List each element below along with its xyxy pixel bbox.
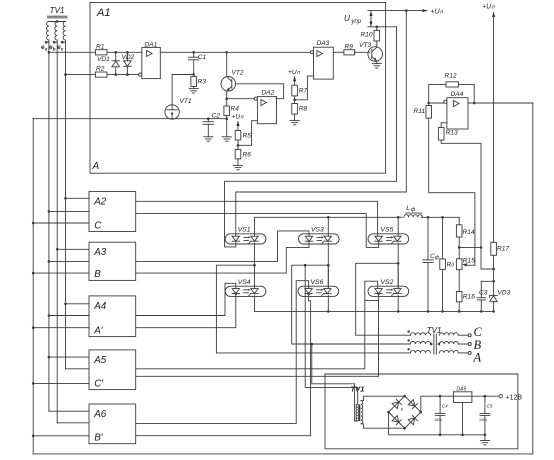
svg-text:DA3: DA3 xyxy=(317,40,330,47)
capacitor C4 xyxy=(439,396,441,413)
resistor R17 xyxy=(491,242,497,255)
wire VT1 source row xyxy=(33,118,227,120)
wire A2 in3 xyxy=(33,222,89,224)
resistor R15 (trimmer) xyxy=(456,259,462,270)
wire VS4 led cathode xyxy=(235,292,238,295)
wire A6 in3 xyxy=(33,435,89,437)
svg-text:+U: +U xyxy=(232,114,241,121)
svg-text:C4: C4 xyxy=(442,404,448,409)
svg-text:д: д xyxy=(451,263,454,269)
wire output C xyxy=(458,334,468,336)
wire PSU secondary bottom xyxy=(361,424,405,428)
wire R15 to R16 xyxy=(458,270,460,292)
svg-text:Б: Б xyxy=(401,408,404,412)
svg-text:VD1: VD1 xyxy=(97,56,110,63)
resistor R4 xyxy=(226,99,228,106)
svg-text:VT3: VT3 xyxy=(359,42,371,49)
terminal ea xyxy=(45,41,48,44)
wire R1 to DA1 xyxy=(107,51,142,53)
wire Un drop to VS1 anode xyxy=(405,11,407,192)
ground R3 xyxy=(193,87,195,89)
op-amp DA4 xyxy=(447,98,468,129)
svg-text:A′: A′ xyxy=(93,325,104,336)
svg-text:ф: ф xyxy=(411,207,416,213)
capacitor Cf xyxy=(427,217,429,260)
bridge diode VD-TR xyxy=(408,400,415,407)
svg-text:R14: R14 xyxy=(463,229,475,236)
wire VS5 loop feed xyxy=(136,213,379,247)
resistor R11 xyxy=(426,106,432,119)
terminal +12V xyxy=(499,395,502,398)
rail ec phase xyxy=(65,42,67,369)
ground R6 xyxy=(237,159,239,166)
svg-text:R1: R1 xyxy=(96,43,105,50)
wire anode bus xyxy=(255,216,403,218)
wire A3 in2 xyxy=(49,260,89,262)
wire VS3 thyristor anode xyxy=(327,217,329,236)
wire VS1 loop feed xyxy=(225,181,397,247)
wire A4 in1 xyxy=(66,303,90,305)
svg-text:100n: 100n xyxy=(434,418,442,422)
svg-text:п: п xyxy=(440,9,443,15)
svg-text:R9: R9 xyxy=(345,43,354,50)
wire VS6 anode feed xyxy=(136,281,309,424)
wire DA1 out bus xyxy=(160,51,310,53)
inductor Lf xyxy=(404,215,422,218)
svg-text:C: C xyxy=(94,220,102,231)
svg-text:DA4: DA4 xyxy=(451,91,464,98)
block A1 boundary box xyxy=(90,3,386,174)
wire Rd bottom xyxy=(442,269,444,311)
svg-text:R2: R2 xyxy=(96,66,105,73)
wire A3 in3 xyxy=(33,272,89,274)
svg-text:b: b xyxy=(53,46,56,51)
capacitor C1 xyxy=(193,52,195,57)
svg-text:A: A xyxy=(92,161,100,172)
svg-text:+U: +U xyxy=(288,69,297,76)
svg-text:A2: A2 xyxy=(93,197,107,208)
transistor VT2 xyxy=(221,77,236,92)
wire R17 bottom xyxy=(493,255,495,295)
wire A4 in3 xyxy=(33,327,89,329)
svg-text:+U: +U xyxy=(431,8,441,15)
PSU enclosure box xyxy=(325,374,518,449)
svg-text:R12: R12 xyxy=(445,73,457,80)
svg-text:R11: R11 xyxy=(414,108,426,115)
wire R9 to VT3 xyxy=(355,51,370,53)
voltage regulator DA5 xyxy=(453,392,472,403)
svg-text:DA5: DA5 xyxy=(457,386,467,392)
node R5/R6 xyxy=(237,140,239,149)
bridge diode VD-BL xyxy=(392,416,399,423)
wire VT2 emitter xyxy=(226,91,228,99)
svg-text:VS5: VS5 xyxy=(381,227,394,234)
svg-text:R8: R8 xyxy=(299,106,308,113)
optothyristor VS6 xyxy=(298,286,339,296)
svg-text:R3: R3 xyxy=(198,79,207,86)
svg-text:+U: +U xyxy=(482,4,492,11)
block A2 xyxy=(89,192,136,232)
wire VS2 loop riser xyxy=(136,300,379,376)
power +Un arrow (top) xyxy=(423,9,427,12)
resistor R5 xyxy=(235,130,241,140)
wire DA4 out xyxy=(468,102,533,104)
svg-text:U: U xyxy=(344,14,350,23)
wire VS1 thyristor anode xyxy=(254,217,256,236)
svg-text:A4: A4 xyxy=(93,301,107,312)
svg-text:п: п xyxy=(241,115,244,121)
svg-text:VS6: VS6 xyxy=(311,279,324,286)
resistor R3 xyxy=(191,77,197,87)
TV1 secondary winding 1 xyxy=(439,333,458,336)
measurement bus bottom xyxy=(255,310,494,312)
TV1 winding b xyxy=(55,22,57,41)
Uynp measure arrow xyxy=(370,12,372,19)
wire DA3 out xyxy=(333,51,344,53)
wire VS2 thyristor cathode xyxy=(397,295,399,311)
wire Lf to R14 xyxy=(421,217,459,225)
rail ramp/common xyxy=(32,119,34,454)
diode VD1 xyxy=(115,52,117,61)
wire A2 in1 xyxy=(66,197,90,199)
resistor R2 xyxy=(95,72,107,77)
block A6 xyxy=(89,404,136,444)
wire PSU primary top xyxy=(305,265,358,404)
wire ec to R2 xyxy=(66,74,96,76)
wire VS2 thyristor anode xyxy=(397,263,399,288)
svg-text:B′: B′ xyxy=(94,433,104,444)
wire A3 in1 xyxy=(57,248,89,250)
wire emitter to DA2 inv xyxy=(227,98,256,100)
TV1 winding c xyxy=(63,22,65,41)
optothyristor VS1 xyxy=(225,234,266,244)
svg-text:VS1: VS1 xyxy=(238,227,251,234)
bridge rectifier frame xyxy=(389,396,421,428)
TV1 secondary winding 3 xyxy=(439,350,458,353)
svg-text:DA1: DA1 xyxy=(145,42,158,49)
wire phase A run xyxy=(216,265,410,353)
diode VD2 xyxy=(126,52,128,61)
block A5 xyxy=(89,350,136,390)
bridge diode VD-TL xyxy=(392,402,399,409)
resistor R7 xyxy=(292,85,298,96)
ground VT3 xyxy=(376,61,378,64)
wire VS5-VS2 phase C node xyxy=(397,243,399,289)
svg-text:R17: R17 xyxy=(497,246,509,253)
wire DA4 inv input xyxy=(429,102,446,104)
ground C2 xyxy=(204,136,213,138)
wire VT2 base from DA2 xyxy=(237,84,284,99)
svg-text:A3: A3 xyxy=(93,247,107,258)
zener VD3 xyxy=(490,294,498,296)
svg-text:упр: упр xyxy=(351,19,362,25)
wire R12 right xyxy=(459,84,475,103)
TV1 top tie wire xyxy=(49,21,66,23)
svg-text:A1: A1 xyxy=(96,7,110,19)
wire VS6 loop feed xyxy=(136,301,311,436)
wire DA4 output drop xyxy=(532,103,534,454)
svg-text:VT1: VT1 xyxy=(180,98,192,105)
svg-text:C3: C3 xyxy=(479,290,488,297)
wire C3 branch xyxy=(481,280,493,282)
svg-text:R15: R15 xyxy=(463,258,475,265)
capacitor C2 xyxy=(207,119,209,122)
wire VS2 anode feed xyxy=(136,281,378,369)
svg-text:R10: R10 xyxy=(361,32,373,39)
ground PSU xyxy=(484,435,486,441)
wire A2 in2 xyxy=(49,210,89,212)
svg-text:VD3: VD3 xyxy=(498,290,511,297)
wire VS3 anode feed xyxy=(136,231,309,262)
ground R4 xyxy=(226,116,228,137)
svg-text:100n: 100n xyxy=(479,418,487,422)
svg-text:C5: C5 xyxy=(487,404,493,409)
svg-text:R16: R16 xyxy=(463,294,475,301)
terminal ec xyxy=(61,41,64,44)
block A3 xyxy=(89,242,136,280)
svg-text:R5: R5 xyxy=(243,133,252,140)
block A4 xyxy=(89,296,136,337)
transistor VT1 xyxy=(165,105,179,119)
wire phase C run xyxy=(356,263,411,335)
wire to DA3 noninv xyxy=(295,76,314,100)
wire Un top rail xyxy=(368,10,427,12)
wire R11 to wiper xyxy=(429,118,475,265)
wire VS3 loop feed xyxy=(136,241,309,273)
wire A4 in2 xyxy=(49,315,89,317)
wire bridge plus rail xyxy=(421,396,499,412)
svg-text:R6: R6 xyxy=(243,152,252,159)
wire VT1 drain xyxy=(171,75,173,106)
resistor R8 xyxy=(292,104,298,115)
wire A6 in1 xyxy=(49,410,89,412)
svg-text:a: a xyxy=(45,46,48,51)
wire A5 in2 xyxy=(66,368,90,370)
resistor R16 xyxy=(456,292,462,302)
svg-text:п: п xyxy=(297,70,300,76)
TV1 primary winding 3 xyxy=(410,350,430,353)
svg-text:A: A xyxy=(473,351,482,365)
wire PSU minus rail xyxy=(389,412,485,435)
wire fb junction xyxy=(459,246,481,248)
capacitor C5 xyxy=(484,396,486,413)
wire phase B run xyxy=(292,265,411,344)
node R7/R8 xyxy=(294,96,296,104)
wire A5 in1 xyxy=(49,356,89,358)
wire VS3-VS6 phase B node xyxy=(327,243,329,289)
wire VS5 thyristor anode xyxy=(397,217,399,236)
op-amp DA1 xyxy=(142,47,161,78)
wire DA5 gnd pin xyxy=(462,403,464,435)
wire ea to R1 xyxy=(49,51,96,53)
wire R16 bottom xyxy=(458,302,460,312)
wire VS2 loop hook xyxy=(365,299,379,301)
svg-text:C1: C1 xyxy=(198,54,207,61)
rail eb phase xyxy=(56,42,58,423)
bridge diode VD-BR xyxy=(408,418,415,425)
TV1 secondary winding 2 xyxy=(439,341,458,344)
resistor R9 xyxy=(344,50,355,55)
TV1 primary winding 1 xyxy=(410,333,430,336)
bottom common rail xyxy=(33,453,533,455)
wire PSU primary bottom xyxy=(312,344,358,421)
wire A6 in2 xyxy=(57,422,89,424)
svg-text:A5: A5 xyxy=(93,355,107,366)
svg-text:C2: C2 xyxy=(212,113,221,120)
optothyristor VS4 xyxy=(225,286,266,296)
wire VS6 thyristor cathode xyxy=(327,295,329,311)
wire Uynp drop to VS1 loop xyxy=(396,27,398,182)
svg-text:R7: R7 xyxy=(299,88,308,95)
resistor R12 xyxy=(446,82,459,87)
wire VS4 thyristor cathode xyxy=(254,295,256,311)
svg-text:C′: C′ xyxy=(94,378,104,389)
wire R13 to fb node xyxy=(441,140,493,269)
wire R12 left xyxy=(429,84,446,105)
svg-text:п: п xyxy=(492,5,495,11)
wire +Un to R17 xyxy=(493,22,495,242)
wire PSU secondary top xyxy=(361,396,405,400)
optothyristor VS3 xyxy=(298,234,339,244)
resistor R13 xyxy=(441,122,447,124)
wire A5 in3 xyxy=(33,382,89,384)
wire VS6 led cathode stub xyxy=(307,292,310,295)
wire VS2 led cathode stub xyxy=(377,292,380,295)
svg-text:L: L xyxy=(406,205,410,212)
svg-text:DA2: DA2 xyxy=(262,90,275,97)
svg-text:VS2: VS2 xyxy=(381,279,394,286)
svg-text:c: c xyxy=(61,46,64,51)
wire VS1 anode feed xyxy=(236,192,406,236)
wire output B xyxy=(458,343,468,345)
wire R15 wiper xyxy=(467,264,475,266)
TV1 winding a xyxy=(46,22,48,41)
wire output A xyxy=(458,352,468,354)
wire VS6 thyristor anode xyxy=(327,265,329,288)
transistor VT3 xyxy=(368,47,383,62)
capacitor C3 xyxy=(480,281,482,297)
TV1 primary winding 2 xyxy=(410,341,430,344)
wire VT2 collector xyxy=(226,52,228,76)
wire VS5 anode feed xyxy=(136,201,378,236)
optothyristor VS2 xyxy=(368,286,409,296)
node R14/R15 xyxy=(458,237,460,259)
wire VS1-VS4 phase A node xyxy=(254,243,256,289)
op-amp DA2 xyxy=(257,97,276,124)
wire Uynp rail xyxy=(368,26,397,28)
svg-text:VT2: VT2 xyxy=(232,70,244,77)
svg-text:A6: A6 xyxy=(93,409,107,420)
svg-text:TV1: TV1 xyxy=(50,6,65,15)
svg-text:R13: R13 xyxy=(446,130,458,137)
wire R2 to DA1 inv xyxy=(107,74,140,76)
resistor R10 xyxy=(376,27,378,31)
svg-text:ф: ф xyxy=(435,255,440,261)
svg-text:B: B xyxy=(94,269,101,280)
resistor R14 xyxy=(456,225,462,237)
rail ea phase xyxy=(48,42,50,411)
svg-text:VS4: VS4 xyxy=(238,279,251,286)
terminal eb xyxy=(53,41,56,44)
resistor Rd xyxy=(442,217,444,259)
ground R8 xyxy=(294,114,296,120)
svg-text:R4: R4 xyxy=(231,106,240,113)
wire VS4 anode feed xyxy=(136,283,236,315)
svg-text:VS3: VS3 xyxy=(311,227,324,234)
resistor R1 xyxy=(95,50,107,55)
svg-text:C: C xyxy=(474,325,483,339)
svg-text:VD2: VD2 xyxy=(122,54,135,61)
svg-text:+12В: +12В xyxy=(506,395,523,402)
optothyristor VS5 xyxy=(368,234,409,244)
wire to DA2 noninv xyxy=(238,121,257,146)
op-amp DA3 xyxy=(314,47,334,79)
resistor R6 xyxy=(235,149,241,159)
